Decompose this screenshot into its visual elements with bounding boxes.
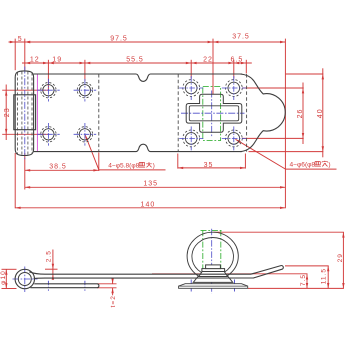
red extension lines (plan, verticals) — [14, 39, 16, 71]
bend line (magenta) — [36, 74, 38, 152]
plate top edge with notch — [34, 74, 242, 81]
svg-text:29: 29 — [337, 253, 344, 262]
hole at (191.2,88) — [185, 82, 197, 94]
svg-text:11.5: 11.5 — [320, 268, 327, 284]
hidden edge: staple plate left — [177, 74, 179, 152]
decorative tongue (right end of staple plate) — [240, 74, 285, 152]
side blue centerlines — [13, 278, 38, 280]
svg-text:22: 22 — [203, 57, 213, 64]
hidden edge: base plate end — [98, 74, 100, 152]
dimension 40 (staple plate height) — [286, 73, 324, 75]
flap strap (side) with hook — [29, 266, 283, 279]
hole at (233.8,88) — [228, 82, 240, 94]
svg-text:5: 5 — [18, 36, 23, 43]
dim t=2 — [97, 283, 117, 285]
svg-text:7.5: 7.5 — [300, 274, 307, 286]
hinge barrel (side) — [15, 269, 34, 288]
dimension 5 (hinge pin offset) — [9, 41, 286, 43]
dimension row 2: 12 / 19 / 55.5 / 22 / 6.5 — [22, 62, 252, 64]
dim 7.5 — [152, 273, 308, 275]
svg-text:): ) — [153, 162, 155, 169]
dim 29 — [214, 231, 344, 233]
hole at (84.9,90.2) — [79, 85, 90, 96]
svg-text:35: 35 — [204, 162, 214, 169]
svg-text:26: 26 — [297, 109, 304, 119]
staple centerlines (blue) — [181, 112, 245, 114]
swivel sweep rectangle (green) — [203, 87, 221, 141]
dim phi10 — [2, 268, 17, 270]
leader label 4-phi6 (countersunk holes staple plate) — [236, 139, 286, 169]
hole at (84.9,134.3) — [79, 129, 90, 140]
svg-text:2.5: 2.5 — [45, 250, 52, 262]
svg-text:37.5: 37.5 — [232, 33, 250, 40]
hole at (191.2,138.4) — [185, 133, 197, 145]
svg-text:40: 40 — [317, 108, 324, 118]
hole at (233.8,138.4) — [228, 133, 240, 145]
svg-text:97.5: 97.5 — [110, 35, 128, 42]
hinge pin hidden lines — [17, 73, 19, 155]
dimension 35 — [178, 167, 246, 169]
dim 2.5 — [45, 268, 58, 270]
dimension 26 (staple hole rows) — [242, 87, 304, 89]
swivel ring (side view) — [187, 232, 238, 280]
dimension 135 — [25, 186, 286, 188]
svg-text:38.5: 38.5 — [49, 164, 67, 171]
leader label 4-phi5.8 (countersunk holes left plate) — [85, 135, 99, 170]
svg-text:4−φ5.8(φ8: 4−φ5.8(φ8 — [108, 162, 139, 169]
svg-text:23: 23 — [4, 107, 11, 117]
svg-text:t=2: t=2 — [110, 295, 117, 307]
base strap (side) — [30, 284, 99, 288]
svg-text:4−φ6(φ8: 4−φ6(φ8 — [290, 161, 316, 168]
svg-text:55.5: 55.5 — [126, 56, 144, 63]
staple base plate (side) — [179, 284, 248, 289]
side view green swivel lines — [202, 230, 204, 282]
hinge knuckle outline — [15, 71, 33, 156]
plate bottom edge with notch — [34, 144, 242, 151]
hinge pin centerline — [24, 67, 26, 160]
svg-text:φ10: φ10 — [0, 270, 7, 285]
dimension 23 (left hole rows) — [2, 89, 48, 91]
dimension 140 — [15, 207, 285, 209]
dimension 38.5 — [25, 169, 99, 171]
staple bracket stack — [193, 277, 233, 283]
svg-text:12: 12 — [30, 56, 40, 63]
svg-text:): ) — [328, 161, 330, 168]
svg-text:140: 140 — [141, 202, 156, 209]
svg-text:135: 135 — [143, 181, 158, 188]
hole at (48.4,90.2) — [43, 85, 54, 96]
hidden edge: staple plate right — [246, 74, 248, 152]
hinge center knuckle — [14, 95, 36, 130]
slot inner rectangle — [189, 106, 238, 121]
staple slot cross — [186, 94, 242, 132]
hole at (48.4,134.3) — [43, 129, 54, 140]
dim 11.5 — [285, 265, 329, 267]
